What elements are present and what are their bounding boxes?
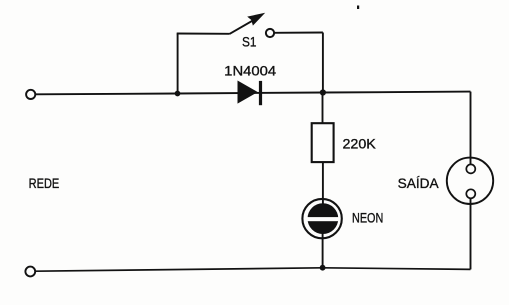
svg-text:NEON: NEON [352, 209, 383, 225]
wire: top rail from node A to node B [178, 93, 323, 94]
wire: neon lamp to node C on bottom rail [322, 230, 324, 268]
wire: socket down to bottom rail corner [470, 198, 472, 269]
wire: bottom rail from left terminal to node C [36, 268, 323, 271]
terminal: bottom-left mains terminal [25, 267, 35, 277]
svg-text:SAÍDA: SAÍDA [398, 175, 440, 191]
socket SAIDA outline [447, 158, 493, 204]
wire: top rail from left terminal to node A [36, 93, 178, 96]
scan speck artifact near top [357, 6, 359, 10]
wire: node B down to resistor R1 [322, 93, 324, 124]
socket SAIDA bottom pin hole [466, 189, 475, 198]
terminal: top-left mains terminal [26, 90, 35, 99]
svg-text:REDE: REDE [29, 175, 60, 191]
neon lamp gap between electrodes [307, 217, 340, 221]
diode D1 cathode bar [259, 81, 262, 105]
neon lamp glass envelope [302, 199, 341, 238]
wire: resistor R1 to neon lamp [322, 162, 324, 208]
wire: from S1 contact to right riser [274, 32, 323, 34]
wire: switch branch left riser up from node A [177, 34, 179, 94]
wire: switch branch top horizontal [177, 33, 230, 35]
socket SAIDA top pin hole [466, 164, 475, 173]
svg-text:220K: 220K [343, 136, 377, 152]
diode D1 1N4004 anode triangle [238, 81, 258, 104]
node C junction (neon branch / bottom rail) [320, 265, 326, 271]
wire: bottom rail from node C to bottom-right corner [323, 268, 471, 270]
node B junction (switch branch / resistor branch / top rail) [320, 89, 326, 95]
svg-text:1N4004: 1N4004 [224, 63, 276, 79]
neon lamp electrodes filled disc [308, 203, 339, 234]
switch S1 blade [230, 18, 257, 34]
switch S1 fixed contact [266, 29, 274, 37]
node A junction (switch branch / top rail) [175, 91, 181, 97]
wire: right branch from top-right corner down to socket [470, 92, 472, 165]
switch S1 blade arrowhead [247, 13, 265, 26]
svg-text:S1: S1 [242, 34, 257, 50]
resistor R1 body [312, 123, 334, 162]
wire: switch branch right riser down to node B [322, 33, 324, 93]
wire: top rail from node B to top-right corner [323, 91, 471, 94]
